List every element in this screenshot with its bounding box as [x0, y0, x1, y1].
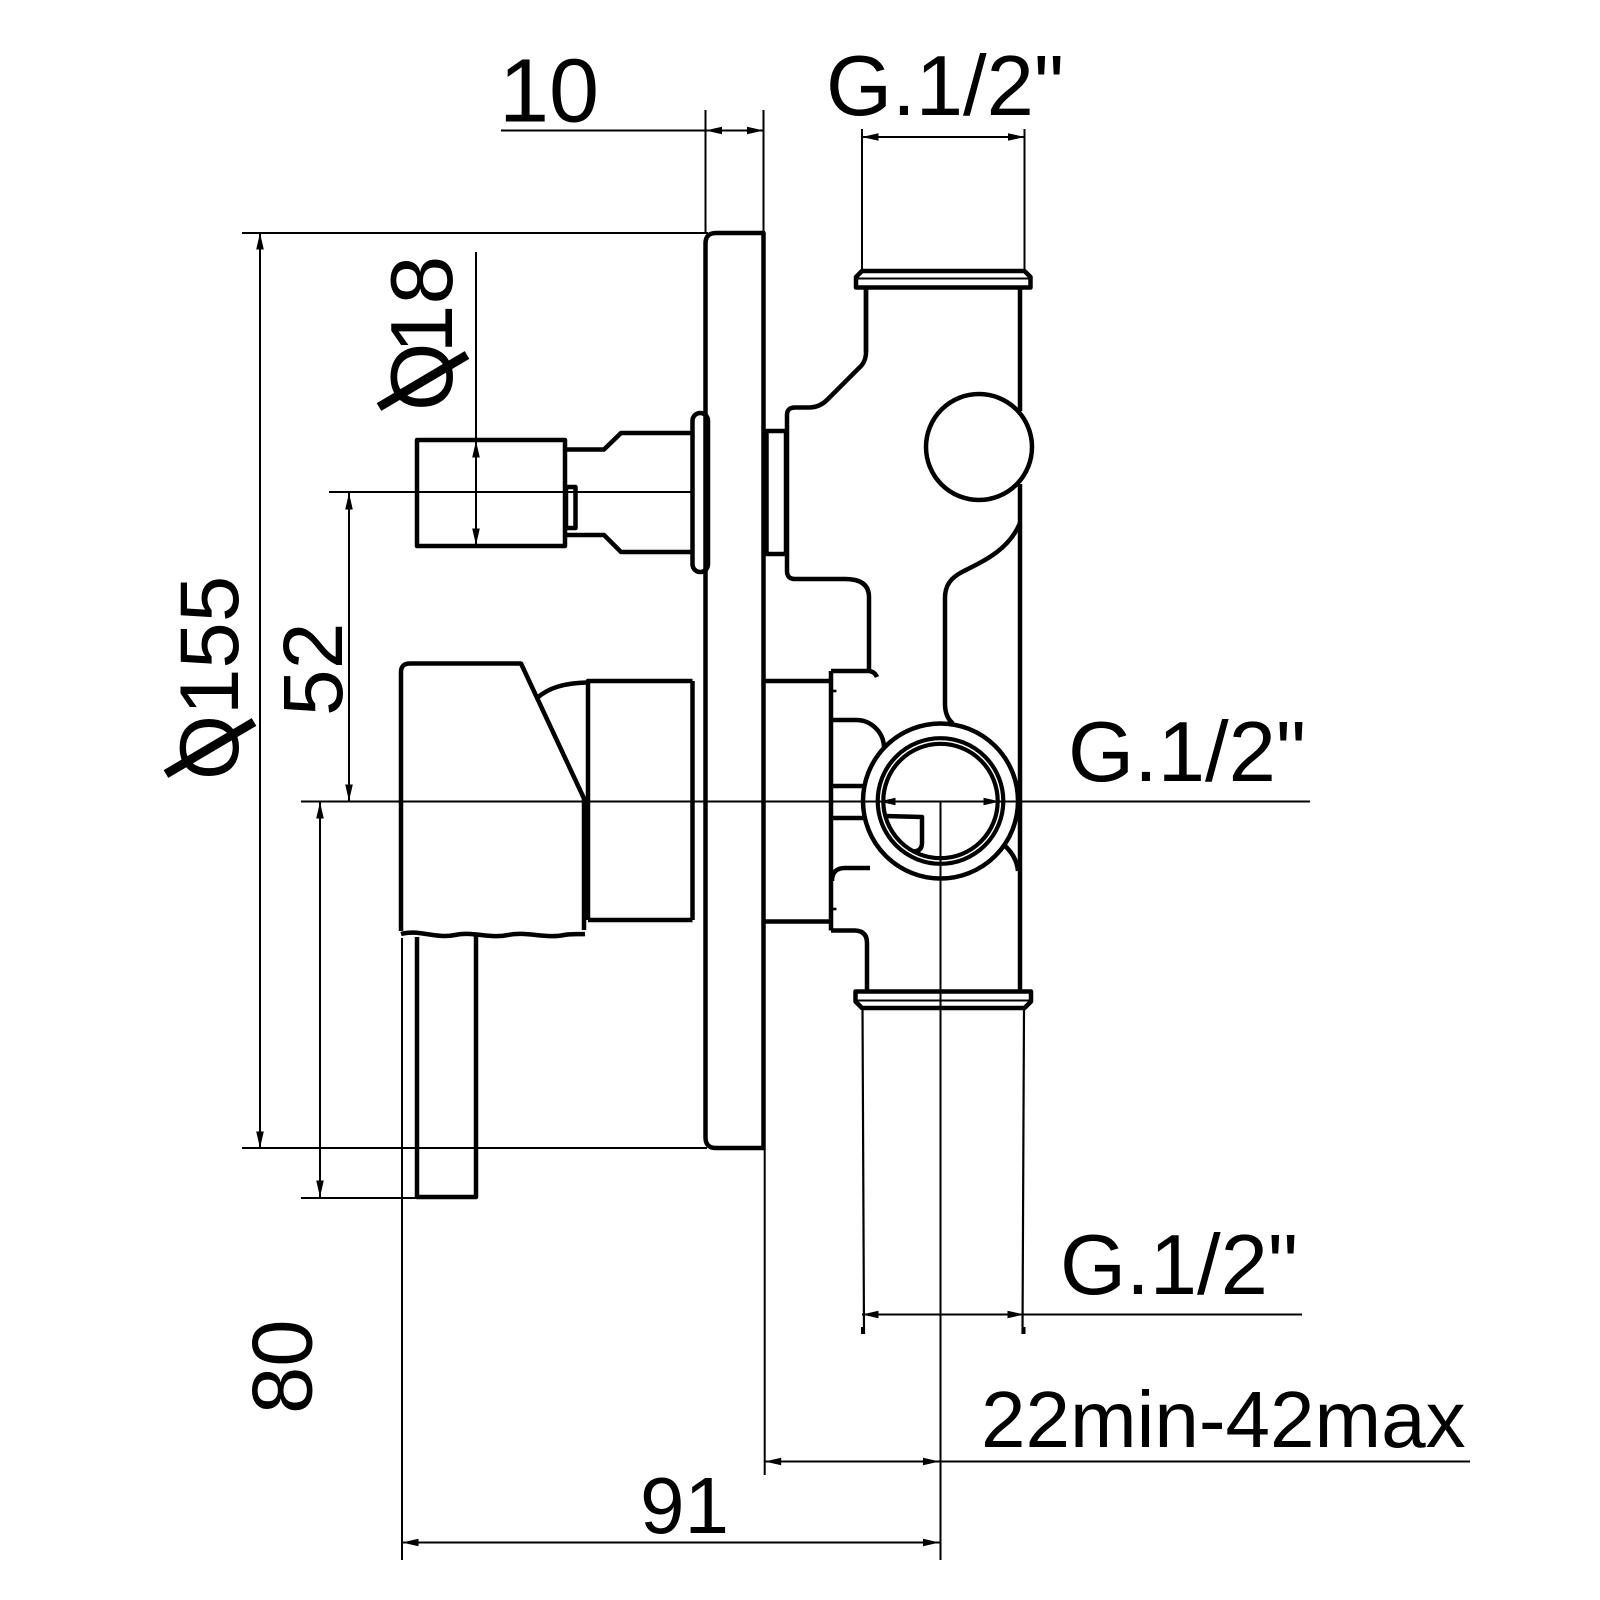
arrow 52 bottom [345, 785, 353, 802]
diverter stem upper outline [565, 433, 693, 450]
arrow O18 top [472, 441, 480, 458]
bottom flange [856, 992, 1032, 1009]
extension/pipe line top nipple left [861, 129, 863, 271]
diverter knob body [417, 440, 565, 546]
arrow 80 bottom [316, 1181, 324, 1198]
cartridge pocket ledge y786 [831, 784, 864, 789]
body left mid vertical [829, 671, 834, 931]
arrow O18 bottom [472, 529, 480, 546]
arrow side port right [984, 798, 1001, 806]
body ledge from plate at y681 [764, 679, 832, 684]
svg-text:80: 80 [236, 1319, 331, 1414]
top nipple below flange (thick) left [864, 288, 869, 353]
arrow 80 top [316, 802, 324, 819]
extension line plate right edge down (22min-42max) [764, 1148, 766, 1475]
screw boss circle [926, 394, 1032, 500]
arrow G bottom left [862, 1311, 879, 1319]
centerline bottom pipe / extension [940, 802, 942, 1561]
body right edge lower segment [1018, 484, 1023, 991]
svg-text:91: 91 [640, 1461, 729, 1550]
svg-text:O18: O18 [372, 256, 471, 411]
arrow O155 top [256, 233, 264, 250]
lever hub break line (wavy) [401, 933, 585, 937]
arrow side port left [879, 798, 896, 806]
svg-text:10: 10 [499, 42, 599, 142]
cartridge dome arc to lever diagonal [537, 683, 589, 699]
top flange mid line [856, 278, 1031, 280]
arrow 91 right [923, 1539, 940, 1547]
extension line plate top (Ø155) [242, 232, 708, 234]
side port ring 3 [883, 744, 997, 858]
arrow 10 right [747, 127, 764, 135]
dim 52 vertical dimension line [348, 493, 350, 801]
main horizontal centerline through lever and side port [301, 801, 1310, 803]
port internal notch [886, 816, 922, 852]
label O18 slash extension [379, 355, 467, 407]
bottom flange mid line [856, 1000, 1032, 1002]
side port outer circle [863, 724, 1018, 879]
mounting block between plate and body [767, 431, 787, 554]
arrow 52 top [345, 493, 353, 510]
small tick B [831, 908, 837, 911]
flange thin mid lines [856, 279, 1032, 1001]
cartridge pocket ledge y818 [831, 816, 864, 821]
svg-text:G.1/2": G.1/2" [1068, 705, 1306, 800]
cartridge pocket ledge y720 into port boss [831, 720, 884, 748]
side port ring 2 [878, 738, 1004, 864]
extension line 91 left (lever hub edge) [401, 938, 403, 1560]
fillet below port to right edge [1004, 845, 1018, 871]
extension/pipe line top nipple right [1024, 129, 1026, 271]
extension line 10 right [763, 110, 765, 233]
arrow G top left [862, 133, 879, 141]
svg-text:22min-42max: 22min-42max [981, 1375, 1466, 1464]
lever handle rod [417, 934, 476, 1197]
dim 91 dimension line [402, 1542, 940, 1544]
interior S-curve from right edge to port top [945, 523, 1020, 724]
svg-text:G.1/2": G.1/2" [1060, 1218, 1298, 1313]
arrow 22-42 left [765, 1458, 782, 1466]
extension line bottom pipe right [1024, 1327, 1026, 1334]
arrow 10 left [706, 127, 723, 135]
svg-text:52: 52 [266, 623, 360, 716]
centerline knob [329, 491, 692, 493]
extension line 10 left [705, 110, 707, 233]
dim Ø155 vertical dimension line [259, 233, 261, 1148]
body ledge at y671 with end arc [831, 671, 877, 677]
arrow 22-42 right [923, 1458, 940, 1466]
cartridge barrel behind lever [588, 681, 693, 920]
arrow 91 left [402, 1539, 419, 1547]
small tick A [831, 690, 837, 693]
label O155 slash extension [166, 722, 254, 774]
arrow G bottom right [1008, 1311, 1025, 1319]
dim Ø18 vertical dimension line [475, 252, 477, 544]
wall plate (escutcheon, Ø155 x 10) [706, 233, 764, 1148]
dim 80 vertical dimension line [319, 802, 321, 1197]
dim G.1/2 bottom dimension line [862, 1314, 1302, 1316]
lever hub outline [401, 664, 584, 932]
body right edge upper segment [1018, 288, 1023, 411]
arrow O155 bottom [256, 1132, 264, 1149]
svg-text:G.1/2": G.1/2" [826, 39, 1064, 134]
top flange [856, 271, 1031, 288]
diverter knob small stub [566, 487, 576, 528]
dim G.1/2 top dimension line [862, 136, 1025, 138]
extension line rod bottom (80) [301, 1197, 476, 1199]
body bottom step to plate [764, 919, 832, 924]
extension line bottom pipe left [861, 1327, 863, 1334]
dim 10 dimension line with left tail [501, 130, 764, 132]
cartridge pocket ledge y868 with corner [832, 868, 870, 881]
dim 22min-42max dimension line [765, 1461, 1470, 1463]
body upper-left outline (nipple to plate) [787, 288, 869, 671]
arrow G top right [1008, 133, 1025, 141]
sleeve capsule behind plate [693, 413, 709, 572]
bottom pipe left [863, 1008, 865, 1334]
body bottom-left step down to flange [831, 931, 867, 992]
diverter stem lower outline [565, 535, 693, 552]
extension line plate bottom (Ø155) [242, 1147, 707, 1149]
bottom pipe right [1023, 1008, 1025, 1334]
